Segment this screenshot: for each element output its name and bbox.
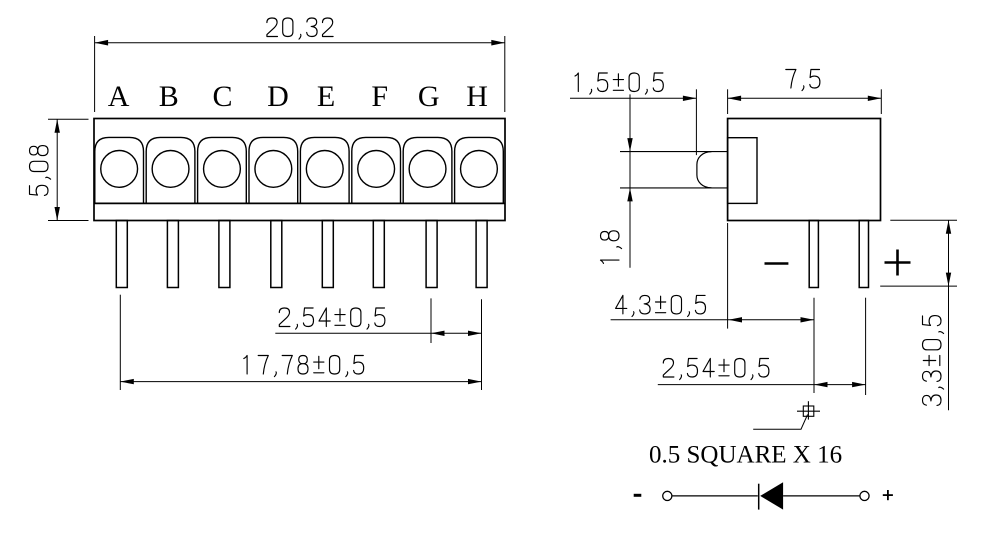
diode symbol: minus label — [634, 494, 642, 497]
LED flange, side view — [728, 138, 757, 204]
dimension 3,3 top extension — [890, 219, 957, 221]
dimension 20,32 extension lines — [95, 36, 505, 112]
LED cell A (lens outline + circle) — [95, 137, 144, 203]
extension line body rear top — [880, 89, 882, 114]
diode symbol: cathode bar — [758, 484, 760, 510]
svg-text:F: F — [371, 80, 388, 113]
pin 4 front view — [271, 221, 282, 288]
diode symbol: plus label — [883, 490, 893, 500]
extension line below pin 8 — [481, 299, 483, 390]
LED cell B — [146, 137, 195, 203]
LED array body, front view — [94, 119, 505, 221]
LED array body, side view — [728, 119, 881, 221]
extension line at dome front — [695, 89, 697, 155]
minus polarity mark — [765, 262, 789, 265]
svg-text:B: B — [159, 80, 179, 113]
dimension text 3,3±0,5 (rotated) — [923, 316, 944, 406]
leader line to pin marker — [753, 415, 807, 430]
svg-text:G: G — [418, 80, 440, 113]
extension line below side pin 1 — [813, 298, 815, 393]
diode symbol: cathode terminal circle — [663, 491, 672, 500]
dimension 20,32 arrows — [95, 40, 109, 46]
dimension 17,78 line — [120, 381, 481, 383]
pin cross-section marker (square with crosshair) — [797, 401, 820, 419]
extension line below pin 1 — [119, 295, 121, 390]
svg-text:0.5 SQUARE X 16: 0.5 SQUARE X 16 — [649, 442, 842, 469]
dimension 5,08 extension lines — [48, 119, 89, 220]
pin 7 front view — [426, 221, 437, 288]
dimension text 1,5±0,5 — [575, 73, 663, 94]
dimension text 4,3±0,5 — [616, 295, 706, 316]
dimension 2,54 front arrows — [431, 331, 445, 336]
pin labels A-H — [108, 80, 488, 113]
dimension text 1,8 (rotated) — [601, 231, 622, 264]
dimension 5,08 arrows — [55, 119, 60, 133]
dimension 1,5±0,5 line — [570, 97, 696, 99]
dimension text 2,54±0,5 front — [279, 308, 385, 329]
dimension text 17,78±0,5 — [244, 356, 364, 377]
LED cell F — [352, 137, 401, 203]
diode symbol: anode wire — [783, 495, 860, 497]
dimension 3,3 line — [948, 220, 950, 410]
svg-text:E: E — [317, 80, 335, 113]
svg-text:C: C — [212, 80, 232, 113]
pin 8 front view — [476, 221, 487, 288]
svg-text:D: D — [267, 80, 289, 113]
svg-text:A: A — [108, 80, 130, 113]
diode symbol: anode terminal circle — [860, 491, 869, 500]
LED dome arc — [697, 152, 712, 188]
diode symbol: cathode wire — [672, 495, 758, 497]
LED cell G — [403, 137, 452, 203]
LED dome top edge / 1,8 extension — [620, 151, 728, 153]
pin 2 side view — [859, 221, 868, 288]
dimension text 7,5 — [786, 70, 820, 91]
LED cell H — [455, 137, 504, 203]
dimension 1,8 line — [629, 94, 631, 267]
LED cell C — [198, 137, 247, 203]
extension line body front top — [727, 89, 729, 114]
dimension text 5,08 (rotated) — [30, 146, 51, 196]
dimension 3,3 bottom extension — [880, 285, 957, 287]
extension line below side pin 2 — [865, 298, 867, 395]
plus polarity mark — [885, 250, 911, 276]
dimension 17,78 arrows — [120, 379, 134, 384]
dimension text 2,54±0,5 side — [663, 359, 769, 380]
pin 6 front view — [373, 221, 384, 288]
dimension 20,32 line — [95, 42, 505, 44]
pin 2 front view — [167, 221, 178, 288]
extension line below pin 7 — [430, 298, 432, 343]
dimension 4,3 line — [611, 319, 814, 321]
dimension 7,5 line — [728, 97, 882, 99]
extension line body front bottom — [727, 223, 729, 329]
pin 1 front view — [116, 221, 127, 288]
pin 5 front view — [322, 221, 333, 288]
dimension text 20,32 — [267, 18, 333, 39]
svg-text:H: H — [466, 80, 488, 113]
pin 3 front view — [219, 221, 230, 288]
dimension 2,54 front line — [275, 332, 481, 334]
dimension 5,08 line — [56, 119, 58, 220]
LED dome bottom edge / 1,8 extension — [620, 187, 728, 189]
dimension 2,54 side line — [658, 384, 866, 386]
pin 1 side view — [809, 221, 818, 288]
LED cell D — [249, 137, 298, 203]
diode symbol: triangle — [760, 482, 783, 509]
LED cell E — [300, 137, 349, 203]
